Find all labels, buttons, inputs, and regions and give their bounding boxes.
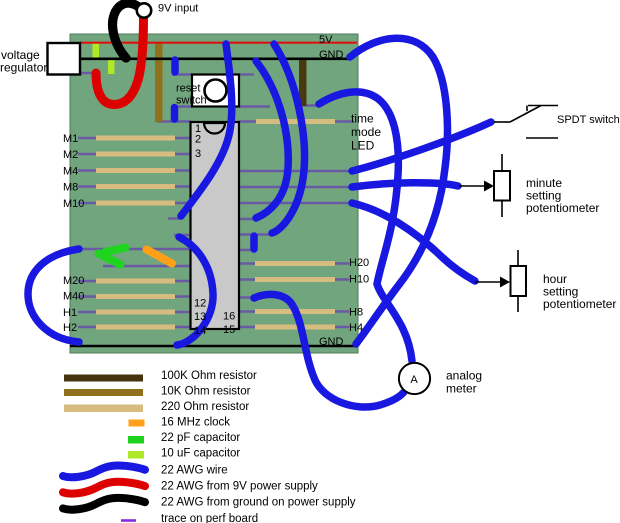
wire C row A to SPDT switch [352, 122, 491, 171]
svg-text:H4: H4 [349, 322, 363, 334]
legend 22 pF capacitor swatch [128, 436, 144, 444]
trace M20 row [78, 280, 191, 282]
svg-text:15: 15 [223, 324, 235, 336]
resistor 10K vertical near regulator [155, 43, 163, 122]
capacitor 10uF C1 [93, 44, 100, 59]
resistor 220 Ohm row M8 [96, 184, 175, 189]
op-amp U1 microcontroller chip body [191, 122, 240, 329]
hour potentiometer body [511, 266, 527, 296]
trace M1 row [78, 137, 191, 139]
16 MHz clock crystal [147, 250, 173, 264]
resistor 220 Ohm row H20 [255, 261, 335, 266]
svg-text:M1: M1 [63, 133, 78, 145]
legend trace on perf board swatch [121, 519, 136, 522]
legend 10K Ohm resistor swatch [64, 389, 143, 396]
svg-text:reset: reset [176, 83, 200, 95]
svg-text:2: 2 [195, 134, 201, 146]
svg-text:22 pF capacitor: 22 pF capacitor [161, 432, 240, 444]
wire jumper reset switch lower [171, 108, 179, 120]
minute potentiometer stem top [501, 154, 503, 171]
svg-text:M10: M10 [63, 198, 84, 210]
svg-text:H8: H8 [349, 307, 363, 319]
trace right row D [239, 218, 256, 220]
trace M10 row [78, 202, 191, 204]
wire jumper reset switch upper [171, 60, 179, 72]
trace H4 row [239, 326, 349, 328]
5V rail [80, 42, 357, 44]
svg-text:5V: 5V [319, 34, 333, 46]
svg-text:M4: M4 [63, 166, 78, 178]
trace M4 row [78, 169, 191, 171]
SPDT switch contact tick [526, 106, 528, 112]
wire D row B to minute potentiometer [352, 183, 458, 187]
trace right row C (to hour pot wire) [239, 202, 351, 204]
GND rail bottom [70, 345, 357, 348]
svg-text:H20: H20 [349, 257, 369, 269]
svg-text:A: A [410, 374, 418, 386]
minute potentiometer arrow line [459, 185, 486, 187]
voltage regulator body [48, 43, 81, 75]
wire B 100K row to analog meter [319, 92, 412, 361]
wire jumper right of chip [250, 236, 258, 249]
svg-text:220 Ohm resistor: 220 Ohm resistor [161, 401, 249, 413]
resistor 220 Ohm row M1 [96, 136, 175, 141]
trace at wire V1 end [168, 217, 182, 219]
SPDT switch lever [510, 106, 541, 123]
GND rail top [80, 57, 352, 60]
resistor 100K vertical near GND rail [299, 58, 307, 106]
svg-text:16 MHz clock: 16 MHz clock [161, 417, 230, 429]
legend 100K Ohm resistor swatch [64, 375, 143, 382]
wire J2 5V rail to right row E [272, 44, 305, 233]
svg-text:regulator: regulator [0, 61, 47, 75]
SPDT switch pole lead [494, 121, 510, 123]
trace right row E [239, 233, 272, 235]
wire left big arc row A to bottom GND rail [28, 249, 79, 342]
trace reset switch bottom left [171, 105, 192, 107]
chip pin-1 notch [204, 123, 225, 134]
svg-text:3: 3 [195, 148, 201, 160]
trace H8 row [239, 310, 349, 312]
trace right row A (to SPDT wire) [239, 170, 351, 172]
trace right row F [239, 249, 256, 251]
wire 9V ground black [113, 3, 138, 58]
analog meter body [399, 363, 430, 394]
legend 22 AWG 9V supply swatch [63, 482, 145, 494]
G_EXT [137, 3, 558, 394]
trace H1 row [78, 311, 191, 313]
trace left row B [103, 265, 191, 267]
wire 9V supply red [96, 17, 144, 105]
svg-text:H2: H2 [63, 322, 77, 334]
resistor 220 Ohm row M2 [96, 152, 175, 157]
minute potentiometer body [494, 171, 510, 201]
resistor 220 Ohm time mode LED row [256, 119, 335, 124]
trace right row B (to minute pot wire) [239, 186, 351, 188]
wire A top GND rail to bottom GND rail [350, 38, 447, 344]
trace reset switch top right [239, 73, 254, 75]
resistor 220 Ohm row M40 [96, 294, 175, 299]
SPDT switch upper contact [528, 105, 558, 107]
svg-text:meter: meter [446, 382, 477, 396]
legend 16 MHz clock swatch [129, 420, 145, 427]
svg-text:potentiometer: potentiometer [526, 201, 599, 215]
trace M8 row [78, 185, 191, 187]
hour potentiometer stem top [517, 250, 519, 266]
trace 100K resistor row [300, 104, 319, 106]
svg-text:LED: LED [351, 139, 375, 153]
svg-text:H1: H1 [63, 307, 77, 319]
wire V2 chip left to bottom GND rail [177, 237, 213, 345]
svg-text:M20: M20 [63, 275, 84, 287]
svg-text:mode: mode [351, 125, 381, 139]
svg-text:13: 13 [194, 311, 206, 323]
svg-text:trace on perf board: trace on perf board [161, 513, 258, 523]
capacitor 22pF stroke 2 [99, 254, 121, 265]
trace LED row left [239, 120, 257, 122]
minute potentiometer stem bottom [501, 201, 503, 218]
legend 220 Ohm resistor swatch [64, 405, 143, 413]
svg-text:GND: GND [319, 336, 344, 348]
resistor 220 Ohm row M10 [96, 201, 175, 206]
perf board [70, 34, 358, 353]
legend 22 AWG wire swatch [63, 465, 145, 477]
trace M40 row [78, 295, 191, 297]
wire V1 from 5V rail down across chip [181, 44, 232, 216]
hour potentiometer arrow line [475, 281, 502, 283]
wire R chip row to analog meter bottom [254, 294, 404, 407]
wire E row C to hour potentiometer [352, 203, 475, 281]
svg-text:SPDT switch: SPDT switch [557, 114, 620, 126]
capacitor 10uF C2 [108, 59, 115, 74]
trace reset switch bottom right [239, 105, 270, 107]
svg-text:GND: GND [319, 49, 344, 61]
legend 22 AWG ground swatch [63, 498, 145, 510]
reset switch body [192, 75, 239, 107]
9V input connector [137, 3, 151, 17]
hour potentiometer stem bottom [517, 296, 519, 312]
svg-text:12: 12 [194, 298, 206, 310]
hour potentiometer arrow head [500, 277, 510, 288]
svg-text:16: 16 [223, 311, 235, 323]
svg-text:10 uF capacitor: 10 uF capacitor [161, 448, 240, 460]
svg-text:time: time [351, 112, 374, 126]
trace 10K resistor to pin1 [157, 120, 191, 122]
svg-text:switch: switch [176, 95, 207, 107]
svg-text:H10: H10 [349, 274, 369, 286]
trace LED row right [334, 120, 353, 122]
svg-text:M8: M8 [63, 182, 78, 194]
resistor 220 Ohm row H4 [255, 325, 335, 330]
trace H20 row [239, 262, 349, 264]
svg-text:9V input: 9V input [158, 3, 198, 15]
G_LEGEND [63, 375, 145, 521]
trace pin row left of chip [174, 234, 191, 236]
svg-text:22 AWG from ground on power su: 22 AWG from ground on power supply [161, 497, 356, 509]
svg-text:10K Ohm resistor: 10K Ohm resistor [161, 386, 251, 398]
resistor 220 Ohm row H10 [255, 277, 335, 282]
svg-text:22 AWG from 9V power supply: 22 AWG from 9V power supply [161, 481, 318, 493]
G_TRACES [78, 73, 353, 327]
svg-text:M2: M2 [63, 149, 78, 161]
trace left row A (22pF cap row) [80, 248, 191, 250]
resistor 220 Ohm row H2 [96, 325, 175, 330]
resistor 220 Ohm row H1 [96, 310, 175, 315]
svg-text:M40: M40 [63, 291, 84, 303]
SPDT switch lower contact [526, 137, 558, 139]
trace M2 row [78, 153, 191, 155]
minute potentiometer arrow head [484, 181, 494, 192]
svg-text:14: 14 [194, 325, 206, 337]
resistor 220 Ohm row M20 [96, 279, 175, 284]
G_WIRES [28, 3, 491, 407]
trace H10 row [239, 278, 349, 280]
svg-text:analog: analog [446, 369, 482, 383]
svg-text:22 AWG wire: 22 AWG wire [161, 465, 228, 477]
G_PARTS [48, 43, 358, 346]
capacitor 22pF stroke 1 [105, 248, 126, 253]
trace H2 row [78, 326, 191, 328]
reset switch button [205, 80, 227, 102]
wire J1 GND rail to right row D [256, 61, 288, 218]
svg-text:100K Ohm resistor: 100K Ohm resistor [161, 370, 257, 382]
resistor 220 Ohm row M4 [96, 168, 175, 173]
trace reset switch top left [172, 73, 192, 75]
trace below voltage regulator [80, 72, 97, 74]
trace meter wire row [239, 296, 253, 298]
legend 10 uF capacitor swatch [128, 451, 144, 459]
resistor 220 Ohm row H8 [255, 309, 335, 314]
svg-text:potentiometer: potentiometer [543, 297, 616, 311]
